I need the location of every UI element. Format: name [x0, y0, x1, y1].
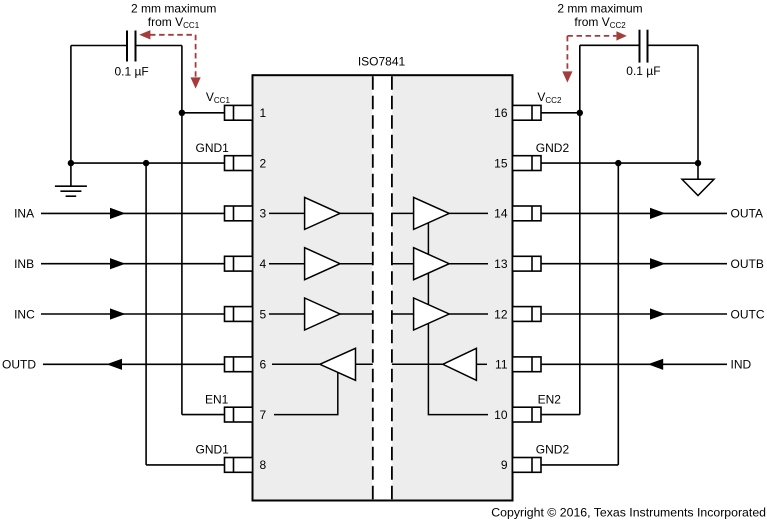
svg-text:5: 5	[260, 307, 267, 321]
pin 12 box	[513, 307, 542, 322]
svg-text:9: 9	[501, 458, 508, 472]
junction GND2 cap	[695, 160, 701, 166]
wire EN1 to pin 7	[182, 414, 225, 416]
svg-text:16: 16	[494, 106, 508, 120]
red annotation arrow left (2mm from VCC1)	[139, 30, 201, 89]
buffer U1B (pin4)	[305, 248, 340, 280]
signal INA arrowhead	[110, 208, 126, 219]
svg-text:10: 10	[494, 408, 508, 422]
wire buffer 12 out to pin12	[449, 313, 488, 315]
wire pin5 to buffer C in	[269, 313, 305, 315]
wire VCC2 vertical (cap to EN2)	[579, 45, 581, 414]
buffer U1C (pin5)	[305, 298, 340, 330]
isolation barrier dashed line right	[391, 76, 393, 499]
junction VCC1	[179, 110, 185, 116]
wire EN1 pin7 internal	[274, 372, 338, 415]
svg-text:ISO7841: ISO7841	[358, 55, 406, 69]
ground GND1 symbol	[55, 163, 87, 196]
svg-text:OUTB: OUTB	[731, 257, 764, 271]
svg-text:7: 7	[260, 408, 267, 422]
svg-text:1: 1	[260, 106, 267, 120]
signal OUTB wire	[541, 263, 727, 265]
svg-text:GND2: GND2	[536, 141, 570, 155]
signal INB wire	[41, 263, 225, 265]
pin 5 box	[225, 307, 253, 322]
wire buffer 11 base to pin11	[476, 363, 487, 365]
svg-text:11: 11	[495, 358, 508, 372]
pin 4 box	[225, 256, 253, 271]
svg-text:INB: INB	[14, 257, 34, 271]
wire C1 right lead	[136, 45, 182, 47]
svg-text:OUTD: OUTD	[2, 358, 36, 372]
wire buffer B out to barrier	[340, 263, 373, 265]
svg-text:INC: INC	[14, 307, 35, 321]
wire EN2 internal vertical and to pin10	[428, 223, 488, 415]
svg-text:OUTA: OUTA	[731, 207, 763, 221]
isolation barrier white band	[372, 76, 392, 499]
pin 11 box	[513, 357, 542, 372]
svg-text:OUTC: OUTC	[731, 307, 765, 321]
signal OUTB arrowhead	[650, 258, 665, 269]
svg-text:4: 4	[260, 257, 267, 271]
junction GND2 branch	[615, 160, 621, 166]
svg-text:2 mm maximum: 2 mm maximum	[131, 2, 216, 16]
wire GND2 vertical to pin 9	[617, 163, 619, 465]
svg-text:13: 13	[494, 257, 508, 271]
svg-text:0.1 µF: 0.1 µF	[114, 64, 148, 78]
svg-text:INA: INA	[14, 207, 34, 221]
wire pin10 EN2	[541, 414, 580, 416]
signal INA wire	[41, 212, 225, 214]
buffer U1D (pin6, output)	[320, 348, 356, 380]
pin 13 box	[513, 256, 542, 271]
signal INC arrowhead	[110, 308, 126, 319]
signal INB arrowhead	[110, 258, 126, 269]
pin 1 box	[225, 105, 253, 120]
signal OUTD wire	[43, 363, 225, 365]
buffer U2C (pin12)	[414, 298, 450, 330]
junction ground-cap left	[68, 160, 74, 166]
signal OUTA wire	[541, 212, 727, 214]
pin 2 box	[225, 156, 253, 171]
wire barrier to buffer 14 in	[392, 212, 414, 214]
pin 14 box	[513, 206, 542, 221]
buffer U2A (pin14)	[414, 197, 450, 229]
wire C2 right lead	[648, 44, 699, 46]
signal OUTC arrowhead	[650, 308, 665, 319]
red annotation arrow right (2mm from VCC2)	[562, 31, 627, 82]
ground GND2 symbol (triangle)	[682, 163, 714, 195]
pin 7 box	[225, 407, 253, 422]
signal OUTD arrowhead	[107, 359, 123, 370]
junction VCC2	[577, 110, 583, 116]
wire buffer 14 out to pin14	[449, 212, 488, 214]
svg-text:0.1 µF: 0.1 µF	[626, 64, 660, 78]
wire C2 left lead	[580, 44, 640, 46]
buffer U2B (pin13)	[414, 248, 450, 280]
svg-text:2 mm maximum: 2 mm maximum	[557, 2, 642, 16]
svg-text:12: 12	[494, 307, 508, 321]
svg-text:IND: IND	[731, 358, 752, 372]
wire buffer A out to barrier	[340, 212, 373, 214]
wire GND2 row pin15	[541, 162, 698, 164]
wire right cap to ground vertical	[697, 45, 699, 163]
wire buffer 13 out to pin13	[449, 263, 488, 265]
svg-text:GND2: GND2	[536, 443, 570, 457]
wire GND1 vertical to pin 8	[145, 163, 147, 465]
svg-text:2: 2	[260, 156, 267, 170]
svg-text:6: 6	[260, 358, 267, 372]
wire VCC1 vertical (cap to EN1)	[181, 46, 183, 415]
wire pin 9 GND2	[541, 464, 618, 466]
svg-text:EN2: EN2	[538, 392, 562, 406]
pin 9 box	[513, 458, 542, 473]
buffer U1A (pin3)	[305, 197, 340, 229]
pin 8 box	[225, 458, 253, 473]
signal INC wire	[41, 313, 225, 315]
capacitor C1 0.1uF left plates	[127, 31, 136, 62]
wire pin4 to buffer B in	[269, 263, 305, 265]
svg-text:14: 14	[494, 207, 508, 221]
wire barrier to buffer 12 in	[392, 313, 414, 315]
isolation barrier dashed line left	[372, 76, 374, 499]
wire C1 left lead	[71, 45, 127, 47]
pin 16 box	[513, 105, 542, 120]
wire barrier to buffer 11 tip	[392, 363, 443, 365]
signal OUTA arrowhead	[650, 208, 665, 219]
junction GND1 branch	[143, 160, 149, 166]
IC U1 body ISO7841	[253, 75, 513, 500]
pin 6 box	[225, 357, 253, 372]
svg-text:GND1: GND1	[196, 443, 230, 457]
svg-text:15: 15	[494, 156, 508, 170]
pin 10 box	[513, 407, 542, 422]
svg-text:GND1: GND1	[196, 141, 230, 155]
wire pin16 to VCC2	[541, 112, 580, 114]
wire pin3 to buffer A in	[269, 212, 305, 214]
wire buffer C out to barrier	[340, 313, 373, 315]
buffer U2D (pin11, input)	[443, 348, 477, 380]
signal IND wire	[541, 363, 727, 365]
signal IND arrowhead	[648, 359, 663, 370]
svg-text:3: 3	[260, 207, 267, 221]
wire pin 8 GND1	[146, 464, 224, 466]
pin 15 box	[513, 156, 542, 171]
svg-text:EN1: EN1	[205, 392, 229, 406]
wire buffer D base to barrier	[356, 363, 373, 365]
svg-text:8: 8	[260, 458, 267, 472]
wire VCC1 to pin 1	[182, 112, 225, 114]
wire pin6 from buffer D tip	[272, 363, 320, 365]
wire GND1 row to pin 2	[71, 162, 225, 164]
pin 3 box	[225, 206, 253, 221]
svg-text:Copyright © 2016, Texas Instru: Copyright © 2016, Texas Instruments Inco…	[491, 506, 766, 520]
signal OUTC wire	[541, 313, 727, 315]
capacitor C2 0.1uF right plates	[640, 30, 648, 63]
wire barrier to buffer 13 in	[392, 263, 414, 265]
wire left cap to ground vertical	[70, 46, 72, 164]
